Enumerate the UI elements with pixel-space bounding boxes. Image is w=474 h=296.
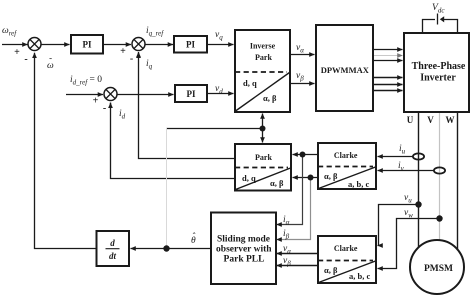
svg-text:d: d xyxy=(110,238,115,248)
svg-text:W: W xyxy=(446,115,455,125)
svg-text:dt: dt xyxy=(109,251,117,261)
svg-text:-: - xyxy=(24,54,27,65)
svg-text:Clarke: Clarke xyxy=(334,151,358,160)
svg-text:+: + xyxy=(120,46,126,57)
svg-text:α, β: α, β xyxy=(324,171,338,181)
svg-text:Park PLL: Park PLL xyxy=(224,255,265,265)
svg-text:Park: Park xyxy=(255,53,272,62)
svg-text:α, β: α, β xyxy=(270,178,284,188)
svg-text:DPWMMAX: DPWMMAX xyxy=(321,65,370,75)
svg-text:a, b, c: a, b, c xyxy=(348,179,369,189)
svg-text:-: - xyxy=(103,103,106,114)
svg-text:+: + xyxy=(93,96,99,107)
svg-text:Inverse: Inverse xyxy=(250,42,276,51)
svg-text:PI: PI xyxy=(83,40,92,50)
svg-text:α, β: α, β xyxy=(324,265,338,275)
svg-text:a, b, c: a, b, c xyxy=(349,271,370,281)
svg-text:Park: Park xyxy=(255,153,272,162)
svg-text:V: V xyxy=(427,115,434,125)
svg-text:PI: PI xyxy=(187,89,196,99)
svg-text:-: - xyxy=(130,54,133,65)
svg-text:observer with: observer with xyxy=(216,245,272,255)
svg-text:α, β: α, β xyxy=(263,93,277,103)
svg-text:d, q: d, q xyxy=(243,78,257,88)
svg-text:PI: PI xyxy=(186,40,195,50)
svg-text:d, q: d, q xyxy=(242,173,256,183)
svg-text:Clarke: Clarke xyxy=(334,244,358,253)
svg-text:U: U xyxy=(407,115,414,125)
svg-text:Inverter: Inverter xyxy=(420,73,456,84)
svg-text:+: + xyxy=(14,47,20,58)
svg-text:Sliding mode: Sliding mode xyxy=(217,235,270,245)
svg-text:Three-Phase: Three-Phase xyxy=(412,61,466,72)
svg-text:PMSM: PMSM xyxy=(424,264,453,274)
